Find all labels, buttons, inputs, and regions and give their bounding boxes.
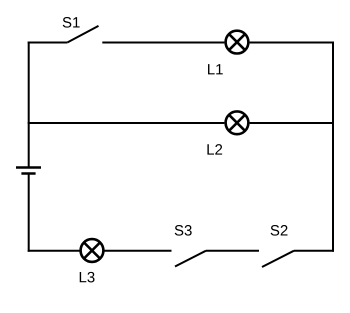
switch S2 blade [262,251,294,267]
wire top rail to right vertical [250,42,334,44]
wire bottom rail S2 to right vertical [294,250,334,252]
lamp L3 [81,239,104,262]
battery short plate (-) [21,172,35,175]
wire left vertical bottom segment (battery - to bottom rail) [28,174,30,252]
wire middle rail right segment [250,122,333,124]
label L1 [208,64,223,74]
label L2 [207,144,222,154]
label S2 [271,225,288,236]
switch S3 blade [175,251,206,267]
wire bottom rail L3 to S3 contact [104,250,172,252]
wire left vertical top segment (battery + to top rail) [28,42,30,167]
wire top rail right segment [102,42,224,44]
label L3 [80,272,95,283]
label S3 [175,225,192,236]
wire right vertical [332,42,334,252]
lamp L1 [226,31,249,54]
wire top rail left segment [28,42,68,44]
lamp L2 [226,111,249,134]
wire bottom rail S3 to S2 contact [206,250,259,252]
switch S1 blade [67,26,98,43]
wire bottom rail left segment [28,250,80,252]
wire middle rail left segment [28,122,225,124]
label S1 [63,17,80,28]
battery long plate (+) [16,166,41,169]
